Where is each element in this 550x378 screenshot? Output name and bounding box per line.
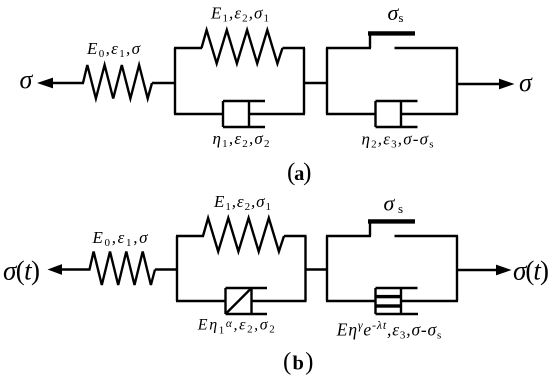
dashpot eta2 cylinder bottom (a) — [376, 126, 418, 128]
wire output shaft (a) — [457, 83, 500, 85]
fractional dashpot left wall (b) — [224, 288, 226, 314]
fractional dashpot diagonal (b) — [226, 288, 252, 314]
wire bottom rail left segment (a) — [174, 113, 224, 115]
dashpot eta2 cylinder left wall (a) — [374, 101, 376, 127]
wire top rail right segment (a) — [283, 47, 306, 49]
spring E0 (b) — [90, 252, 156, 286]
wire top rail before friction (a) — [326, 47, 371, 49]
aging dashpot stripe 1 (b) — [376, 295, 402, 298]
wire output shaft (b) — [457, 269, 497, 271]
wire left vertical of Kelvin element (a) — [174, 48, 176, 114]
left arrow (b) — [48, 264, 63, 275]
dashpot eta1 cylinder top (a) — [223, 100, 265, 102]
wire top rail before friction (b) — [326, 235, 371, 237]
friction element slider bar sigma_s (a) — [368, 31, 415, 35]
aging dashpot stripe 2 (b) — [376, 304, 402, 307]
wire bottom rail left segment (b) — [176, 300, 227, 302]
fractional dashpot piston (b) — [250, 288, 252, 314]
wire fractional dashpot rod (b) — [252, 300, 307, 302]
fractional dashpot top (b) — [226, 287, 268, 289]
wire top rail right segment (b) — [284, 235, 307, 237]
friction element stub (a) — [369, 33, 371, 48]
spring E1 (b) — [203, 218, 284, 252]
svg-text:E0,ε1,σ: E0,ε1,σ — [86, 39, 141, 60]
wire top rail left segment (b) — [176, 235, 204, 237]
wire dashpot eta2 rod (a) — [401, 113, 458, 115]
svg-text:σ(t): σ(t) — [3, 256, 40, 286]
fractional dashpot bottom (b) — [226, 313, 268, 315]
dashpot eta1 cylinder bottom (a) — [223, 126, 265, 128]
svg-text:σ: σ — [20, 65, 34, 94]
wire right vertical of Bingham element (a) — [456, 48, 458, 114]
right arrow (a) — [499, 79, 515, 90]
svg-text:(a): (a) — [287, 159, 312, 186]
wire left vertical of Bingham element (a) — [326, 48, 328, 114]
wire bottom rail left segment of Bingham (b) — [326, 300, 377, 302]
dashpot eta1 piston (a) — [248, 101, 250, 127]
svg-text:(b): (b) — [283, 349, 314, 376]
svg-text:σ: σ — [519, 68, 533, 97]
wire right vertical of Kelvin element (b) — [304, 236, 306, 301]
left arrow (a) — [37, 78, 53, 89]
wire node B connector (b) — [306, 268, 329, 270]
dashpot eta2 cylinder top (a) — [376, 100, 418, 102]
aging dashpot top (b) — [376, 287, 418, 289]
dashpot eta1 cylinder left wall (a) — [222, 101, 224, 127]
svg-text:σ(t): σ(t) — [513, 256, 549, 286]
wire arrow shaft left (b) — [61, 268, 91, 270]
spring E0 (a) — [83, 65, 152, 99]
aging dashpot piston (b) — [400, 288, 402, 314]
wire spring to node A (b) — [155, 268, 178, 270]
wire dashpot eta1 rod (a) — [249, 113, 305, 115]
svg-text:E0,ε1,σ: E0,ε1,σ — [92, 228, 149, 249]
wire arrow shaft left (a) — [52, 82, 84, 84]
wire spring to node A (a) — [152, 82, 176, 84]
friction element stub (b) — [369, 221, 371, 236]
friction element slider bar sigma_s (b) — [368, 219, 415, 223]
wire right vertical of Bingham element (b) — [456, 236, 458, 301]
spring E1 (a) — [202, 30, 283, 64]
wire left vertical of Kelvin element (b) — [176, 236, 178, 301]
svg-text:E1,ε2,σ1: E1,ε2,σ1 — [213, 192, 271, 213]
wire bottom rail left segment of Bingham (a) — [326, 113, 377, 115]
dashpot eta2 piston (a) — [400, 101, 402, 127]
wire right vertical of Kelvin element (a) — [303, 48, 305, 114]
right arrow (b) — [496, 265, 512, 276]
wire top rail after friction (b) — [395, 235, 459, 237]
svg-text:Eηγe-λt,ε3,σ-σs: Eηγe-λt,ε3,σ-σs — [336, 318, 442, 342]
wire top rail after friction (a) — [395, 47, 459, 49]
wire top rail left segment (a) — [174, 47, 202, 49]
wire left vertical of Bingham element (b) — [326, 236, 328, 301]
aging dashpot bottom (b) — [376, 313, 419, 315]
wire aging dashpot rod (b) — [401, 300, 458, 302]
wire node B connector (a) — [304, 82, 328, 84]
svg-text:E1,ε2,σ1: E1,ε2,σ1 — [210, 4, 269, 25]
aging dashpot left wall (b) — [374, 288, 376, 314]
